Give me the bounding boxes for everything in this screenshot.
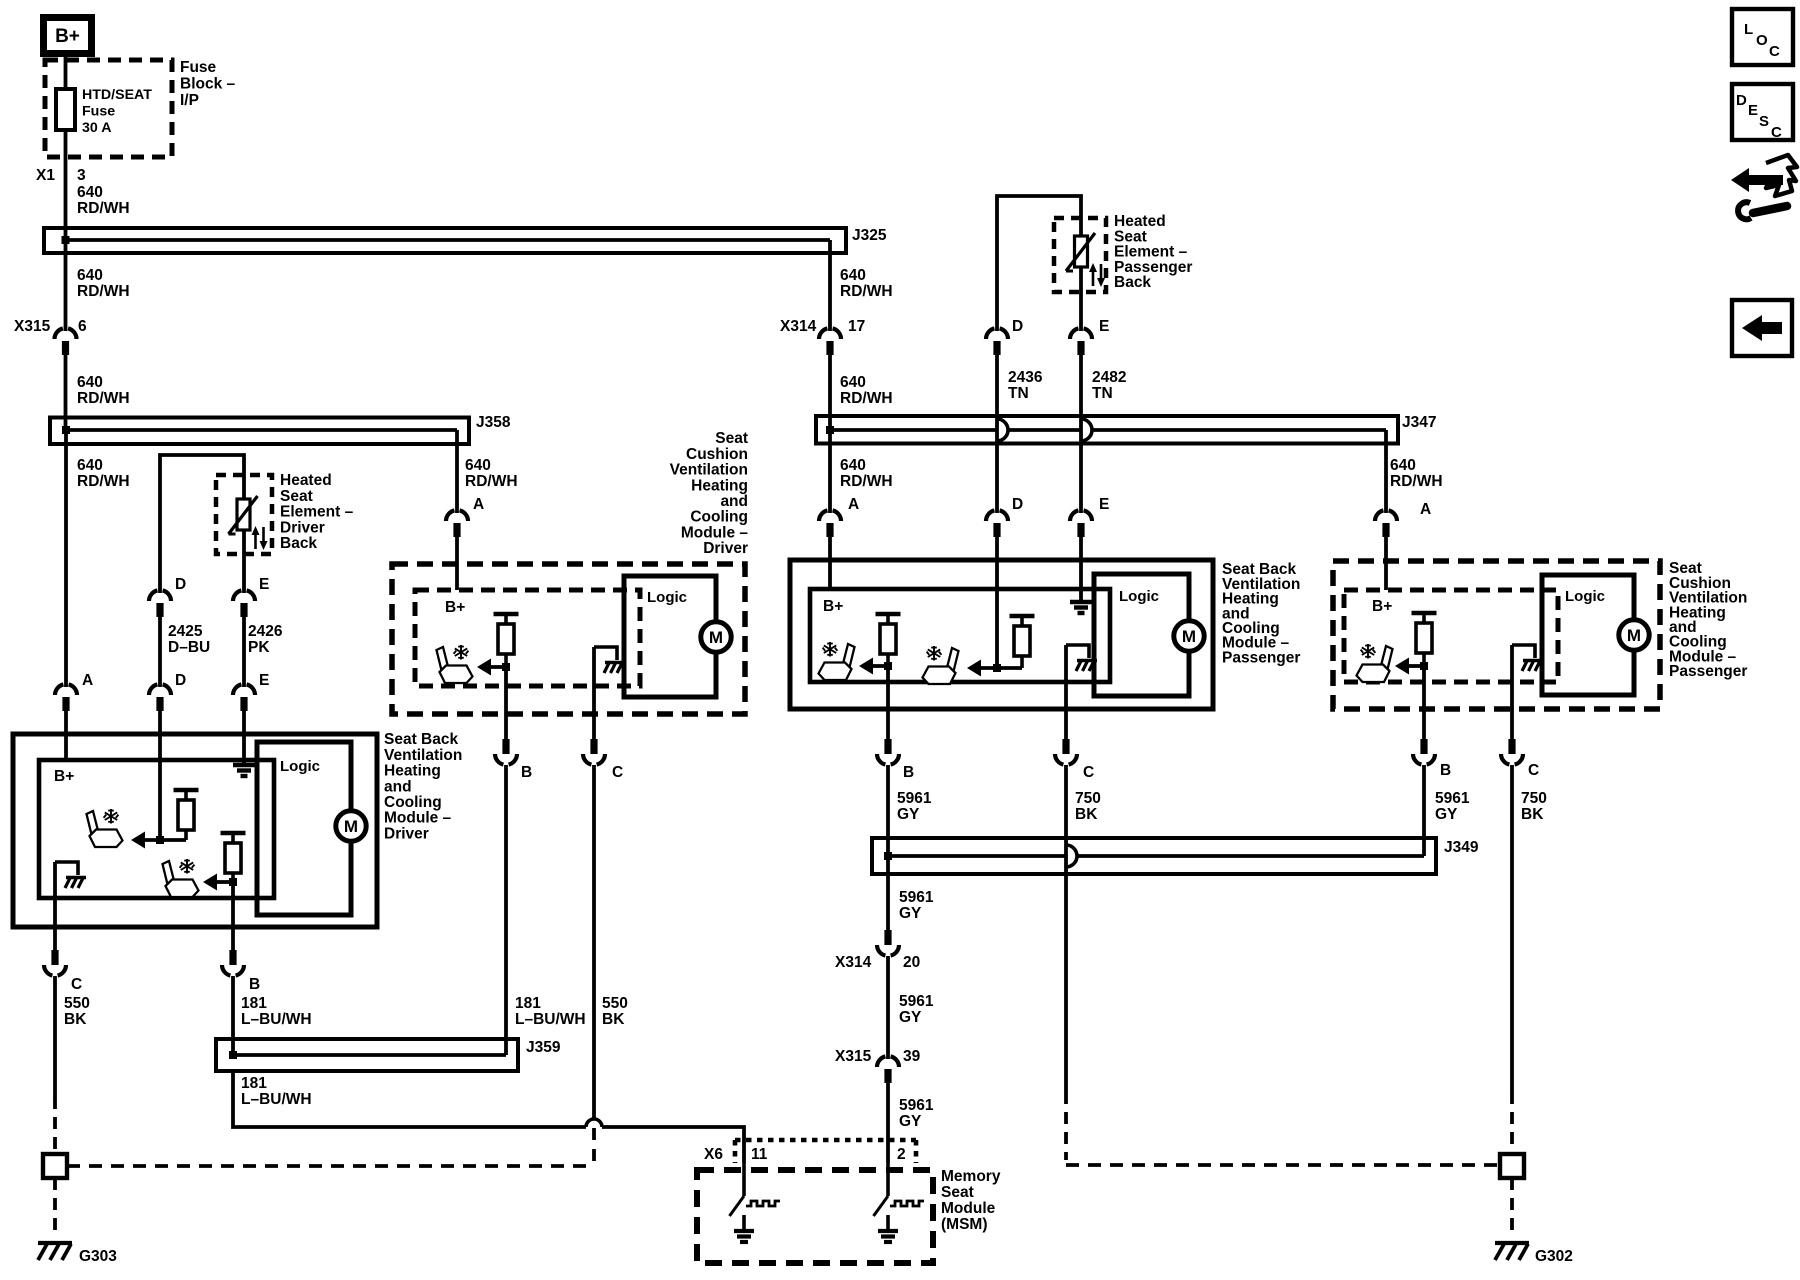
svg-text:RD/WH: RD/WH	[840, 473, 893, 490]
svg-text:G303: G303	[79, 1248, 117, 1265]
arrow to seat passenger cushion	[1395, 658, 1409, 675]
J347 inner wire segment 1	[830, 428, 997, 432]
svg-text:640: 640	[77, 267, 103, 284]
seat icon passenger cushion	[1357, 644, 1393, 682]
svg-text:39: 39	[903, 1048, 921, 1065]
junction D driver back	[156, 836, 164, 844]
junction at J347 left	[826, 426, 834, 434]
junction D passenger back	[993, 664, 1001, 672]
svg-text:L: L	[1744, 21, 1753, 38]
svg-text:B: B	[903, 764, 914, 781]
svg-text:D: D	[1012, 496, 1023, 513]
svg-text:181: 181	[241, 1075, 267, 1092]
svg-text:L–BU/WH: L–BU/WH	[241, 1091, 312, 1108]
wire hop over ground line	[586, 1119, 602, 1127]
wire element to E connector	[242, 530, 246, 593]
wire 181 to J359	[231, 976, 235, 1055]
svg-text:Cushion: Cushion	[686, 446, 748, 463]
svg-text:M: M	[344, 817, 358, 836]
svg-text:C: C	[1769, 43, 1780, 60]
svg-text:Cooling: Cooling	[690, 509, 748, 526]
wire A to driver cushion B+	[455, 537, 459, 590]
svg-text:A: A	[848, 496, 859, 513]
wire E into module passenger	[1079, 537, 1083, 600]
connector C driver cushion	[590, 739, 597, 754]
seat back module driver inner box	[39, 760, 274, 898]
connector B passenger cushion	[1420, 739, 1427, 754]
svg-text:A: A	[82, 672, 93, 689]
svg-text:640: 640	[77, 374, 103, 391]
svg-text:A: A	[1420, 501, 1431, 518]
svg-text:B+: B+	[54, 768, 74, 785]
svg-text:E: E	[259, 672, 269, 689]
ground wire dashed passenger back	[1064, 1092, 1068, 1160]
connector X314 pin 20	[884, 930, 891, 945]
J347 inner wire segment 2	[1008, 428, 1081, 432]
svg-text:O: O	[1756, 32, 1768, 49]
connector C passenger cushion	[1508, 739, 1515, 754]
J347 inner wire segment 3	[1092, 428, 1386, 432]
splice bus J359	[216, 1039, 518, 1071]
seat icon driver cushion	[437, 645, 473, 683]
svg-text:Back: Back	[1114, 274, 1151, 291]
svg-text:D: D	[1012, 318, 1023, 335]
motor M driver back	[336, 811, 366, 841]
connector bar X6 left stub	[733, 1140, 738, 1163]
connector D upper passenger	[986, 328, 994, 339]
svg-text:L–BU/WH: L–BU/WH	[515, 1011, 586, 1028]
chassis ground passenger cushion	[1512, 645, 1535, 658]
svg-text:A: A	[473, 496, 484, 513]
wire B driver back down	[231, 882, 235, 950]
svg-text:GY: GY	[1435, 806, 1458, 823]
svg-text:Cooling: Cooling	[384, 794, 442, 811]
arrow to seat 2 passenger back	[967, 660, 981, 677]
wire arrow arm driver cushion	[491, 665, 506, 669]
svg-text:Seat Back: Seat Back	[384, 731, 458, 748]
svg-text:640: 640	[840, 267, 866, 284]
logic box driver cushion	[624, 576, 716, 697]
thermistor heated seat element driver back	[237, 499, 250, 530]
logic box passenger back	[1094, 574, 1189, 696]
connector bar X6 right stub	[914, 1140, 919, 1163]
svg-text:181: 181	[241, 995, 267, 1012]
svg-text:Heated: Heated	[280, 472, 332, 489]
wire D through J347	[995, 355, 999, 513]
svg-text:TN: TN	[1008, 385, 1029, 402]
svg-text:M: M	[709, 628, 723, 647]
svg-text:5961: 5961	[899, 993, 934, 1010]
junction at J349 left	[884, 852, 892, 860]
svg-text:C: C	[1083, 764, 1094, 781]
junction at J359 left	[229, 1051, 237, 1059]
svg-text:3: 3	[77, 167, 86, 184]
svg-text:Fuse: Fuse	[82, 104, 115, 120]
resistor passenger cushion	[1412, 611, 1437, 615]
svg-text:5961: 5961	[899, 1097, 934, 1114]
svg-text:E: E	[1099, 496, 1109, 513]
svg-text:BK: BK	[602, 1011, 625, 1028]
icon box LOC	[1732, 9, 1793, 65]
ground wire below splice left	[53, 1178, 57, 1232]
svg-text:and: and	[720, 493, 748, 510]
svg-text:PK: PK	[248, 639, 270, 656]
svg-text:2426: 2426	[248, 623, 283, 640]
wire E through J347	[1079, 355, 1083, 513]
svg-text:B+: B+	[55, 26, 80, 47]
wire D-E loop top	[160, 455, 244, 593]
svg-text:RD/WH: RD/WH	[1390, 473, 1443, 490]
connector A driver back module	[55, 684, 63, 695]
J349 hop at 750 BK wire	[1066, 845, 1077, 867]
svg-text:E: E	[1099, 318, 1109, 335]
junction driver cushion	[502, 663, 510, 671]
seat icon 1 passenger back	[819, 642, 855, 680]
svg-text:M: M	[1627, 626, 1641, 645]
wire C driver cushion down	[592, 647, 596, 740]
wire J358 left drop to connector A	[64, 430, 68, 687]
seat back module driver outer box	[13, 734, 377, 927]
svg-text:Module –: Module –	[681, 524, 749, 541]
heated seat element driver back dashed box	[216, 475, 272, 554]
wire 550 BK down	[592, 765, 596, 1107]
svg-text:J349: J349	[1444, 839, 1479, 856]
svg-text:and: and	[384, 778, 412, 795]
wire C passenger cushion down	[1510, 645, 1514, 740]
svg-text:C: C	[612, 764, 623, 781]
svg-text:Passenger: Passenger	[1669, 663, 1747, 680]
wire D into module	[158, 711, 162, 840]
svg-text:X315: X315	[835, 1048, 872, 1065]
power symbol B+	[44, 18, 92, 54]
svg-text:B+: B+	[1372, 598, 1392, 615]
connector D lower passenger	[986, 510, 994, 521]
J359 inner wire	[233, 1053, 506, 1057]
icon box DESC	[1732, 84, 1793, 141]
wire arrow arm 2 driver back	[217, 880, 233, 884]
svg-text:X314: X314	[835, 954, 872, 971]
svg-text:D: D	[175, 576, 186, 593]
seat cushion module driver inner dashed box	[415, 590, 640, 686]
resistor 2 driver back	[221, 831, 246, 835]
svg-text:D: D	[1736, 92, 1747, 109]
svg-text:Seat: Seat	[715, 430, 748, 447]
svg-text:B+: B+	[823, 598, 843, 615]
ground link dashed horizontal	[67, 1164, 594, 1168]
splice bus J347	[816, 416, 1398, 444]
svg-text:B: B	[249, 976, 260, 993]
J349 inner wire segment 1	[888, 854, 1066, 858]
svg-text:2482: 2482	[1092, 369, 1126, 386]
wire arrow arm 2 passenger back	[981, 666, 1022, 670]
svg-text:5961: 5961	[899, 889, 934, 906]
svg-text:640: 640	[77, 184, 103, 201]
svg-text:640: 640	[840, 374, 866, 391]
fuse HTD/SEAT 30A	[56, 89, 75, 130]
svg-text:Seat: Seat	[280, 488, 313, 505]
connector A passenger back	[819, 510, 827, 521]
wire X314-20 to X315-39	[886, 956, 890, 1059]
wire 5961 GY below J349	[886, 856, 890, 933]
svg-text:2: 2	[897, 1146, 906, 1163]
svg-text:6: 6	[78, 318, 87, 335]
wire B driver cushion down	[504, 667, 508, 740]
connector A driver cushion	[446, 510, 454, 521]
MSM switch and ground pin 11	[742, 1163, 746, 1196]
svg-text:RD/WH: RD/WH	[465, 473, 518, 490]
connector E lower passenger	[1070, 510, 1078, 521]
svg-text:M: M	[1182, 627, 1196, 646]
svg-text:C: C	[71, 976, 82, 993]
wire B passenger cushion down	[1422, 666, 1426, 740]
wire 750 BK through J349	[1064, 765, 1068, 1092]
seat cushion module driver outer dashed box	[392, 564, 745, 714]
connector D lower driver	[149, 684, 157, 695]
svg-text:B: B	[1440, 762, 1451, 779]
wire X315-6 to J358	[64, 355, 68, 430]
connector B passenger back	[884, 739, 891, 754]
svg-text:Memory: Memory	[941, 1168, 1001, 1185]
wire E to lower connector	[242, 617, 246, 687]
splice square right	[1500, 1154, 1524, 1178]
svg-text:Passenger: Passenger	[1222, 649, 1300, 666]
wire element to E connector passenger	[1079, 267, 1083, 331]
wire chassis to C pin	[53, 862, 57, 950]
memory seat module dashed box	[697, 1170, 933, 1263]
J347 hop at E wire	[1081, 419, 1092, 441]
J325 inner wire	[66, 238, 831, 242]
chassis ground driver cushion	[594, 647, 617, 660]
connector D upper driver	[149, 590, 157, 601]
wire J325 to X315-6	[64, 240, 68, 331]
seat cushion module passenger inner dashed box	[1344, 590, 1558, 682]
svg-text:BK: BK	[1521, 806, 1544, 823]
wire J347 right drop	[1384, 430, 1388, 513]
connector E upper driver	[233, 590, 241, 601]
svg-text:TN: TN	[1092, 385, 1113, 402]
connector E lower driver	[233, 684, 241, 695]
logic box driver back	[257, 742, 351, 915]
svg-text:Block –: Block –	[180, 76, 236, 93]
svg-text:Heating: Heating	[384, 763, 441, 780]
svg-text:J359: J359	[526, 1039, 561, 1056]
svg-text:Driver: Driver	[703, 540, 748, 557]
svg-text:750: 750	[1075, 790, 1101, 807]
ground wire below splice right	[1510, 1178, 1514, 1232]
svg-text:(MSM): (MSM)	[941, 1216, 988, 1233]
motor M passenger back	[1174, 621, 1204, 651]
svg-text:30 A: 30 A	[82, 120, 111, 136]
svg-text:5961: 5961	[897, 790, 932, 807]
svg-text:640: 640	[77, 457, 103, 474]
J347 hop at D wire	[997, 419, 1008, 441]
svg-text:B+: B+	[445, 599, 465, 616]
resistor driver cushion	[494, 612, 519, 616]
splice bus J349	[872, 838, 1436, 874]
wire arrow arm 1 passenger back	[873, 664, 888, 668]
svg-text:C: C	[1528, 762, 1539, 779]
connector X315 pin 39	[877, 1056, 885, 1067]
connector X314 pin 17	[819, 328, 827, 339]
connector B driver cushion	[502, 739, 509, 754]
icon box back arrow	[1732, 300, 1792, 356]
svg-text:X1: X1	[36, 167, 55, 184]
svg-text:Seat: Seat	[941, 1184, 974, 1201]
wire C passenger cushion to dashed	[1510, 765, 1514, 1092]
ground wire dashed driver	[53, 1097, 57, 1154]
svg-text:2436: 2436	[1008, 369, 1043, 386]
wire A to passenger cushion B+	[1384, 537, 1388, 590]
svg-text:J358: J358	[476, 414, 511, 431]
wire 5961 GY to J349	[886, 765, 890, 856]
connector C driver back	[51, 950, 58, 965]
seat icon 2 passenger back	[923, 646, 959, 684]
ground link dashed horizontal right	[1066, 1163, 1500, 1167]
arrow to seat 2 driver back	[203, 874, 217, 891]
svg-text:Element –: Element –	[280, 504, 354, 521]
junction at J325 left	[62, 236, 70, 244]
svg-text:HTD/SEAT: HTD/SEAT	[82, 87, 152, 103]
chassis ground passenger back	[1066, 645, 1089, 658]
wire 5961 GY to MSM pin 2	[886, 1083, 890, 1163]
svg-text:GY: GY	[899, 1113, 922, 1130]
svg-text:X315: X315	[14, 318, 51, 335]
wire C passenger back down	[1064, 645, 1068, 740]
wire B+ to fuse	[64, 57, 68, 92]
wire A into passenger back module	[828, 537, 832, 589]
earth ground passenger back	[1070, 600, 1092, 604]
svg-text:E: E	[1748, 102, 1758, 119]
seat back module passenger inner box	[810, 589, 1110, 682]
svg-text:S: S	[1759, 113, 1769, 130]
svg-text:2425: 2425	[168, 623, 203, 640]
wire D-E loop top passenger	[997, 196, 1081, 331]
connector A passenger cushion	[1375, 510, 1383, 521]
svg-text:J325: J325	[852, 227, 887, 244]
svg-text:550: 550	[64, 995, 90, 1012]
svg-text:Module: Module	[941, 1200, 996, 1217]
splice bus J325	[44, 228, 846, 253]
earth ground driver back	[233, 763, 255, 767]
thermistor heated seat element passenger back	[1075, 236, 1088, 267]
svg-text:RD/WH: RD/WH	[77, 473, 130, 490]
connector E upper passenger	[1070, 328, 1078, 339]
resistor 1 passenger back	[876, 612, 901, 616]
chassis ground driver back	[55, 862, 78, 875]
svg-text:Heating: Heating	[691, 477, 748, 494]
svg-text:I/P: I/P	[180, 92, 199, 109]
heated seat element passenger back dashed box	[1054, 218, 1106, 292]
svg-text:B: B	[521, 764, 532, 781]
svg-text:640: 640	[840, 457, 866, 474]
svg-text:RD/WH: RD/WH	[77, 283, 130, 300]
junction at J358 left	[62, 426, 70, 434]
splice square left	[43, 1154, 67, 1178]
svg-text:Fuse: Fuse	[180, 59, 217, 76]
junction B passenger back	[884, 662, 892, 670]
svg-text:G302: G302	[1535, 1248, 1573, 1265]
svg-text:20: 20	[903, 954, 920, 971]
svg-text:Logic: Logic	[647, 589, 687, 606]
arrow to seat 1 passenger back	[859, 658, 873, 675]
wire B passenger back down	[886, 666, 890, 740]
svg-text:640: 640	[1390, 457, 1416, 474]
wire D into module passenger	[995, 537, 999, 668]
wire D to lower connector	[158, 617, 162, 687]
svg-text:Back: Back	[280, 535, 317, 552]
svg-text:750: 750	[1521, 790, 1547, 807]
svg-text:L–BU/WH: L–BU/WH	[241, 1011, 312, 1028]
svg-text:Ventilation: Ventilation	[670, 462, 748, 479]
svg-text:BK: BK	[1075, 806, 1098, 823]
svg-text:D: D	[175, 672, 186, 689]
ground link dashed vertical	[592, 1107, 596, 1166]
wire B passenger cushion to J349	[1422, 765, 1426, 856]
svg-text:11: 11	[751, 1146, 768, 1163]
seat back module passenger outer box	[790, 560, 1213, 709]
svg-text:Logic: Logic	[280, 758, 320, 775]
wire arrow arm 1 driver back	[145, 838, 186, 842]
wire E into module	[242, 711, 246, 764]
wire arrow arm passenger cushion	[1409, 664, 1424, 668]
J349 inner wire segment 2	[1077, 854, 1424, 858]
connector C passenger back	[1062, 739, 1069, 754]
ground wire dashed passenger cushion	[1510, 1092, 1514, 1154]
svg-text:BK: BK	[64, 1011, 87, 1028]
svg-text:RD/WH: RD/WH	[77, 200, 130, 217]
svg-text:640: 640	[465, 457, 491, 474]
svg-text:Logic: Logic	[1119, 588, 1159, 605]
resistor 2 passenger back	[1010, 614, 1035, 618]
svg-text:C: C	[1771, 124, 1782, 141]
splice bus J358	[50, 418, 469, 445]
junction B driver back	[229, 878, 237, 886]
arrow to seat driver cushion	[477, 659, 491, 676]
arrow to seat 1 driver back	[131, 832, 145, 849]
svg-text:5961: 5961	[1435, 790, 1470, 807]
connector X315 pin 6	[55, 328, 63, 339]
seat cushion module passenger outer dashed box	[1333, 561, 1660, 709]
svg-text:Driver: Driver	[280, 519, 325, 536]
svg-text:181: 181	[515, 995, 541, 1012]
motor M passenger cushion	[1619, 620, 1649, 650]
svg-text:RD/WH: RD/WH	[77, 390, 130, 407]
svg-text:X314: X314	[780, 318, 817, 335]
wire 181 continue to X6-11	[602, 1127, 744, 1163]
fuse block dashed outline	[45, 60, 172, 157]
wire J347 to A passenger back	[828, 430, 832, 513]
svg-text:Ventilation: Ventilation	[384, 747, 462, 764]
J358 inner wire	[66, 428, 457, 432]
seat icon 2 driver back	[163, 859, 199, 897]
svg-text:X6: X6	[704, 1146, 723, 1163]
motor M driver cushion	[701, 622, 731, 652]
svg-text:J347: J347	[1402, 414, 1436, 431]
svg-text:GY: GY	[899, 1009, 922, 1026]
junction passenger cushion	[1420, 662, 1428, 670]
svg-text:RD/WH: RD/WH	[840, 283, 893, 300]
ground G302	[1495, 1241, 1529, 1245]
wire X314-17 to J347	[828, 355, 832, 430]
svg-text:D–BU: D–BU	[168, 639, 210, 656]
wire J358 right drop	[455, 430, 459, 513]
svg-text:550: 550	[602, 995, 628, 1012]
connector B driver back	[229, 950, 236, 965]
svg-text:17: 17	[848, 318, 865, 335]
resistor 1 driver back	[174, 788, 199, 792]
MSM switch and ground pin 2	[886, 1163, 890, 1196]
ground G303	[38, 1241, 72, 1245]
